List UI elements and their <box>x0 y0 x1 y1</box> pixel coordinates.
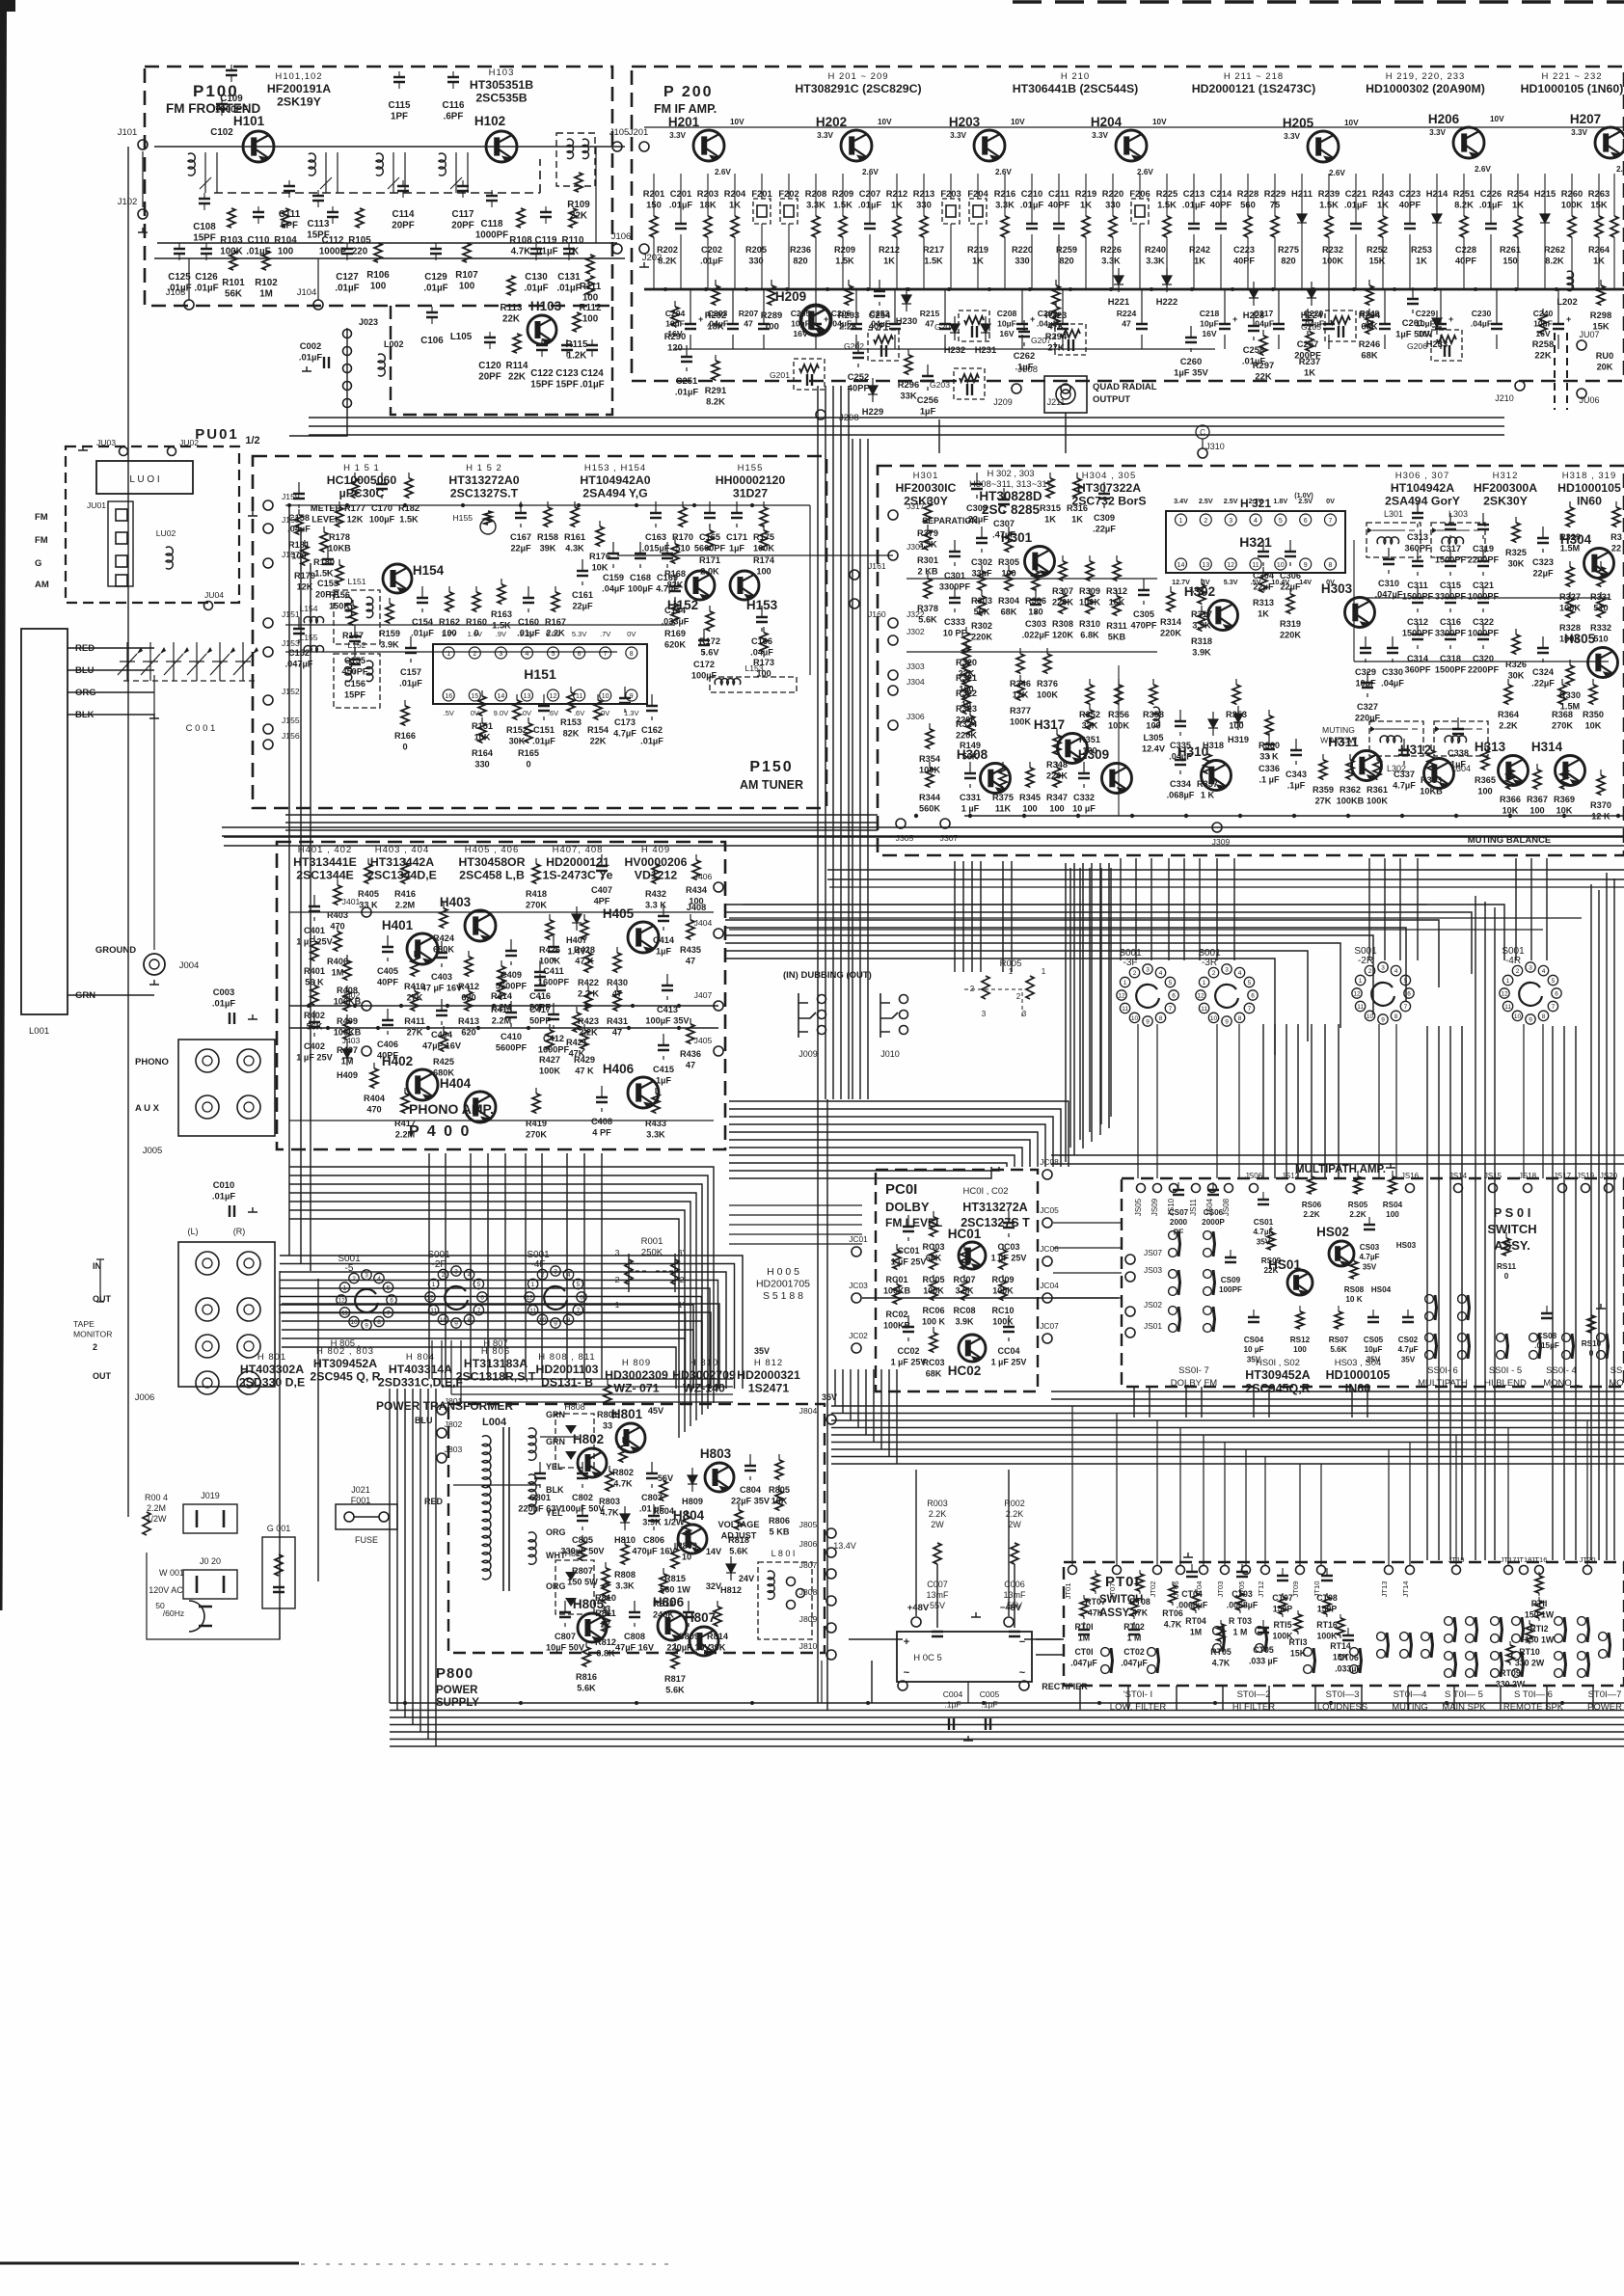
svg-text:15PF: 15PF <box>344 690 365 700</box>
svg-text:C343: C343 <box>1286 770 1307 779</box>
svg-text:2200PF: 2200PF <box>1468 665 1500 675</box>
svg-text:R203: R203 <box>697 188 718 199</box>
svg-text:H232: H232 <box>944 344 965 355</box>
capacitor CS05 <box>1367 1317 1379 1322</box>
svg-text:47: 47 <box>744 319 753 329</box>
svg-text:R425: R425 <box>433 1057 454 1067</box>
svg-text:.033 µF: .033 µF <box>1249 1657 1279 1666</box>
top edge dotted line right half <box>1013 0 1624 4</box>
jack JS18 <box>1524 1184 1532 1193</box>
svg-text:J305: J305 <box>896 833 914 843</box>
capacitor symbol C240 <box>1557 289 1559 324</box>
svg-text:PU01: PU01 <box>195 426 239 443</box>
svg-text:15PF: 15PF <box>555 380 578 391</box>
block P150 AM tuner <box>253 456 826 808</box>
svg-text:200PF: 200PF <box>1294 350 1321 361</box>
svg-text:C257: C257 <box>1297 338 1318 349</box>
svg-text:J304: J304 <box>907 677 925 687</box>
svg-text:2: 2 <box>1368 968 1372 975</box>
crystal filter G201 <box>794 359 825 390</box>
capacitor CS02 <box>1402 1317 1414 1322</box>
jack J309 <box>1212 823 1222 832</box>
jack JS15 <box>1489 1184 1498 1193</box>
svg-text:HC0I , C02: HC0I , C02 <box>963 1186 1009 1197</box>
svg-text:1 K: 1 K <box>1201 791 1215 800</box>
tuned circuit L104 <box>439 153 446 176</box>
svg-text:R361: R361 <box>1367 785 1388 795</box>
svg-text:2.6V: 2.6V <box>995 168 1012 176</box>
wire J104 up <box>317 258 319 300</box>
transistor H204 <box>1116 130 1147 162</box>
svg-text:1K: 1K <box>1080 200 1092 210</box>
svg-text:F201: F201 <box>751 188 771 199</box>
jack J807 <box>826 1569 836 1579</box>
svg-text:R294: R294 <box>1045 331 1068 341</box>
svg-text:1: 1 <box>1359 978 1363 985</box>
tape jack pair <box>196 1298 219 1321</box>
svg-text:R416: R416 <box>394 889 416 899</box>
svg-text:HT30828D: HT30828D <box>979 489 1042 503</box>
svg-text:8: 8 <box>1238 1015 1242 1022</box>
svg-text:HD1000105: HD1000105 <box>1557 481 1621 495</box>
svg-text:6: 6 <box>1555 991 1558 998</box>
svg-text:15: 15 <box>471 693 478 700</box>
svg-text:1.5M: 1.5M <box>1560 544 1581 554</box>
svg-text:+48V: +48V <box>907 1603 930 1613</box>
svg-text:.01µF: .01µF <box>1344 200 1367 210</box>
svg-text:9: 9 <box>1225 1019 1229 1026</box>
L801 switch contacts <box>787 1578 796 1586</box>
svg-text:C152: C152 <box>288 648 310 658</box>
svg-text:R816: R816 <box>576 1672 597 1682</box>
svg-text:30K: 30K <box>1508 671 1525 681</box>
svg-text:R302: R302 <box>971 621 992 631</box>
svg-text:2: 2 <box>1516 968 1520 975</box>
svg-text:R215: R215 <box>920 309 940 318</box>
svg-text:620K: 620K <box>664 640 686 650</box>
jack J201 <box>639 142 649 151</box>
svg-text:HC01: HC01 <box>948 1227 982 1241</box>
svg-text:R315: R315 <box>1040 503 1061 513</box>
svg-text:R377: R377 <box>1010 706 1031 716</box>
jack J202 <box>639 244 649 254</box>
wire bundle under P150 <box>222 827 1624 836</box>
svg-text:R304: R304 <box>998 596 1020 606</box>
capacitor CS08 <box>1541 1313 1553 1318</box>
svg-text:HS0I , S02: HS0I , S02 <box>1256 1358 1300 1368</box>
block PC01 dolby <box>876 1170 1038 1391</box>
svg-text:C162: C162 <box>641 725 663 735</box>
tuned circuit L102 <box>309 153 315 176</box>
svg-text:C221: C221 <box>1345 188 1367 199</box>
svg-text:C258: C258 <box>1243 344 1264 355</box>
circled C node <box>1196 425 1209 439</box>
capacitor C214 <box>1215 224 1227 229</box>
svg-text:2.3V: 2.3V <box>1249 497 1263 505</box>
jack J305 <box>896 819 906 828</box>
svg-text:JS05: JS05 <box>1134 1198 1143 1216</box>
svg-text:8: 8 <box>1159 1015 1163 1022</box>
transformer primary coil <box>482 1436 491 1513</box>
svg-text:R364: R364 <box>1498 710 1520 719</box>
svg-text:1PF: 1PF <box>391 112 408 122</box>
svg-text:C114: C114 <box>392 209 415 220</box>
svg-text:RS04: RS04 <box>1383 1201 1403 1209</box>
svg-text:JC07: JC07 <box>1040 1321 1059 1331</box>
jack JS17 <box>1558 1184 1567 1193</box>
svg-text:G 001: G 001 <box>267 1524 291 1533</box>
svg-text:.01µF: .01µF <box>399 679 422 689</box>
svg-text:330 2W: 330 2W <box>1515 1659 1545 1668</box>
svg-text:J106: J106 <box>611 231 632 242</box>
jack JS01 <box>1125 1328 1135 1337</box>
svg-text:CC02: CC02 <box>897 1346 919 1356</box>
svg-text:6: 6 <box>1251 993 1255 1000</box>
svg-text:360PF: 360PF <box>1404 665 1430 675</box>
svg-text:.01µF: .01µF <box>1242 356 1265 366</box>
transistor H154 <box>383 564 412 594</box>
svg-text:1K: 1K <box>1194 257 1205 266</box>
svg-text:J804: J804 <box>799 1406 818 1416</box>
svg-text:FM: FM <box>35 512 48 523</box>
choke L801 <box>758 1562 812 1639</box>
svg-text:H206: H206 <box>1428 112 1460 126</box>
svg-text:R102: R102 <box>255 278 278 288</box>
svg-text:C002: C002 <box>300 340 321 351</box>
svg-text:H812: H812 <box>720 1585 742 1595</box>
svg-text:100: 100 <box>764 321 779 332</box>
transistor H153 <box>730 571 759 601</box>
svg-text:R289: R289 <box>761 310 782 320</box>
svg-text:100: 100 <box>370 282 387 292</box>
svg-text:JU02: JU02 <box>179 438 199 447</box>
jack J161 <box>850 570 859 580</box>
svg-text:C156: C156 <box>344 679 365 689</box>
svg-text:HS02: HS02 <box>1316 1225 1349 1239</box>
svg-text:R114: R114 <box>506 361 528 371</box>
svg-text:8: 8 <box>1329 562 1333 569</box>
svg-text:C415: C415 <box>653 1065 674 1074</box>
svg-text:4.7K: 4.7K <box>613 1479 633 1489</box>
svg-text:H 1 5 1: H 1 5 1 <box>343 463 380 473</box>
svg-text:0V: 0V <box>1326 497 1335 505</box>
svg-text:HT30458OR: HT30458OR <box>458 855 525 869</box>
svg-text:10KB: 10KB <box>1420 787 1443 797</box>
svg-text:R362: R362 <box>1340 785 1361 795</box>
svg-text:R332: R332 <box>1590 623 1611 633</box>
wire J008 drop <box>1065 413 1067 453</box>
svg-text:R174: R174 <box>753 555 775 565</box>
svg-text:100K: 100K <box>1037 690 1058 700</box>
svg-text:5.6K: 5.6K <box>665 1686 685 1695</box>
svg-text:C116: C116 <box>443 100 465 111</box>
svg-text:22K: 22K <box>1534 350 1551 361</box>
svg-text:150: 150 <box>1502 257 1517 266</box>
svg-text:.01µF: .01µF <box>1182 200 1205 210</box>
svg-text:H 302 , 303: H 302 , 303 <box>987 469 1034 479</box>
jack JC05 <box>1042 1218 1052 1228</box>
svg-text:JU01: JU01 <box>87 500 106 510</box>
svg-text:RU0: RU0 <box>1596 351 1613 361</box>
svg-text:R00 4: R00 4 <box>145 1493 168 1502</box>
svg-text:.6PF: .6PF <box>444 112 464 122</box>
svg-text:120K: 120K <box>1052 631 1073 640</box>
svg-text:10V: 10V <box>1490 115 1504 123</box>
svg-text:3.3K: 3.3K <box>615 1581 635 1591</box>
svg-text:.01µF: .01µF <box>675 387 698 397</box>
transistor H209 <box>800 305 831 337</box>
svg-text:2: 2 <box>442 1272 446 1279</box>
svg-text:R428: R428 <box>574 945 595 955</box>
svg-text:HT309452A: HT309452A <box>1245 1368 1310 1382</box>
svg-text:H215: H215 <box>1534 188 1556 199</box>
svg-text:10K: 10K <box>592 563 609 573</box>
svg-text:R246: R246 <box>1359 338 1380 349</box>
svg-text:H405: H405 <box>603 906 635 921</box>
svg-text:1000PF: 1000PF <box>475 230 508 241</box>
resistor R263 <box>1595 216 1603 237</box>
jack J304 <box>888 686 898 695</box>
svg-text:2.6V: 2.6V <box>1475 165 1491 174</box>
svg-text:C109: C109 <box>220 94 243 104</box>
svg-text:4 PF: 4 PF <box>592 1128 611 1138</box>
svg-text:CS09: CS09 <box>1221 1276 1241 1284</box>
svg-text:.01µF: .01µF <box>335 284 359 294</box>
svg-text:12: 12 <box>426 1295 434 1302</box>
svg-text:H403: H403 <box>440 895 472 909</box>
svg-text:AM TUNER: AM TUNER <box>740 778 803 792</box>
svg-text:2.5V: 2.5V <box>1199 497 1213 505</box>
svg-text:JT02: JT02 <box>1149 1581 1157 1598</box>
svg-text:0: 0 <box>526 760 530 770</box>
svg-text:OUTPUT: OUTPUT <box>1093 394 1130 405</box>
svg-text:.22µF: .22µF <box>1093 525 1116 534</box>
page left edge black bar <box>0 0 7 1610</box>
svg-text:4: 4 <box>1254 518 1258 525</box>
svg-text:J004: J004 <box>179 960 200 971</box>
svg-text:100: 100 <box>278 247 294 257</box>
svg-text:C324: C324 <box>1532 667 1555 677</box>
jack JT04 <box>1200 1566 1208 1575</box>
wire bottom bundle connects <box>821 1661 823 1703</box>
svg-text:J160: J160 <box>868 609 886 619</box>
svg-text:9.0V: 9.0V <box>494 709 508 717</box>
wire right of dolby <box>1053 1222 1122 1224</box>
svg-text:C308: C308 <box>966 503 988 513</box>
svg-text:H312: H312 <box>1493 471 1519 481</box>
svg-text:J802: J802 <box>445 1419 463 1429</box>
svg-text:3.9K: 3.9K <box>1192 621 1211 631</box>
svg-text:JS10: JS10 <box>1167 1198 1176 1216</box>
capacitor CT0I <box>1078 1630 1090 1634</box>
resistor RT09 <box>1506 1645 1514 1662</box>
svg-text:J403: J403 <box>342 1036 361 1045</box>
svg-text:P800: P800 <box>436 1665 474 1682</box>
svg-text:100K: 100K <box>1559 635 1581 644</box>
svg-text:JC06: JC06 <box>1040 1244 1059 1254</box>
svg-text:C262: C262 <box>1014 350 1035 361</box>
svg-text:12: 12 <box>526 1295 533 1302</box>
resistor RS08 <box>1350 1261 1358 1279</box>
jack J102 <box>138 209 148 219</box>
svg-text:12: 12 <box>1501 991 1508 998</box>
svg-text:H101,102: H101,102 <box>275 71 322 82</box>
svg-text:RC06: RC06 <box>922 1306 944 1315</box>
capacitor CT02 <box>1128 1630 1140 1634</box>
svg-text:C102: C102 <box>210 127 233 138</box>
crystal filter G204 <box>959 311 989 341</box>
svg-text:H 211 ~ 218: H 211 ~ 218 <box>1224 71 1284 82</box>
svg-text:15K: 15K <box>1590 200 1607 210</box>
svg-text:MUTING: MUTING <box>1322 725 1355 735</box>
jack J159 <box>263 500 273 510</box>
svg-text:JS09: JS09 <box>1150 1198 1159 1216</box>
svg-text:C161: C161 <box>572 590 593 600</box>
tape jack pair <box>196 1252 219 1275</box>
svg-text:R242: R242 <box>1189 245 1210 255</box>
crystal filter G207 <box>1055 324 1086 355</box>
svg-text:270K: 270K <box>526 1130 547 1140</box>
jack JC04 <box>1042 1293 1052 1303</box>
svg-text:C806: C806 <box>643 1535 664 1545</box>
svg-text:R258: R258 <box>1532 338 1554 349</box>
svg-text:.01µF: .01µF <box>299 352 322 363</box>
svg-text:C118: C118 <box>481 219 503 230</box>
svg-text:MULTIPATH AMP.: MULTIPATH AMP. <box>1295 1164 1386 1175</box>
svg-text:RT04: RT04 <box>1185 1616 1206 1626</box>
svg-text:6: 6 <box>480 1295 484 1302</box>
wire mesh verticals right of dubbing <box>1065 863 1067 1162</box>
jack J209 <box>1012 384 1021 393</box>
svg-text:R308: R308 <box>1052 619 1073 629</box>
svg-text:.047µF: .047µF <box>1121 1659 1148 1668</box>
wire rect area connects <box>936 1564 938 1628</box>
svg-text:BLU: BLU <box>415 1416 433 1425</box>
wire right h1 <box>829 886 1624 888</box>
svg-text:18K: 18K <box>707 321 723 332</box>
svg-text:JS11: JS11 <box>1189 1199 1198 1216</box>
svg-text:1.2K: 1.2K <box>567 351 587 362</box>
transistor H805 <box>578 1613 607 1643</box>
svg-text:R435: R435 <box>680 945 701 955</box>
P100 component symbols <box>199 199 210 203</box>
svg-text:L001: L001 <box>29 1026 49 1037</box>
svg-text:R106: R106 <box>366 270 390 281</box>
svg-text:A U X: A U X <box>135 1103 160 1114</box>
svg-text:C254: C254 <box>869 310 891 320</box>
capacitor symbol C205 <box>815 289 817 324</box>
svg-text:220K: 220K <box>1046 771 1068 781</box>
svg-text:.7V: .7V <box>600 630 610 638</box>
svg-text:HS03: HS03 <box>1396 1241 1417 1250</box>
resistor R209 <box>839 216 847 237</box>
svg-text:7: 7 <box>1169 1006 1173 1013</box>
svg-text:9: 9 <box>365 1323 368 1330</box>
resistor R251 <box>1460 216 1468 237</box>
svg-text:3.3V: 3.3V <box>1284 132 1300 141</box>
svg-text:40PF: 40PF <box>1048 200 1070 210</box>
svg-text:.01µF: .01µF <box>411 629 434 638</box>
wire under rotaries <box>1051 1155 1624 1164</box>
svg-text:J801: J801 <box>445 1396 463 1406</box>
svg-text:100µF: 100µF <box>628 584 654 594</box>
svg-text:220: 220 <box>352 247 368 257</box>
jack J151 <box>263 618 273 628</box>
svg-text:JS14: JS14 <box>1449 1172 1468 1180</box>
svg-text:7: 7 <box>1404 1004 1408 1011</box>
svg-text:HT308291C (2SC829C): HT308291C (2SC829C) <box>795 82 921 95</box>
svg-text:100µF 35V: 100µF 35V <box>645 1016 690 1026</box>
svg-text:1 µF 25V: 1 µF 25V <box>991 1358 1027 1367</box>
svg-text:R204: R204 <box>724 188 746 199</box>
svg-text:R3: R3 <box>1610 532 1622 542</box>
svg-text:3.4V: 3.4V <box>1174 497 1188 505</box>
svg-text:3: 3 <box>365 1273 368 1280</box>
svg-text:7: 7 <box>1248 1006 1252 1013</box>
IC H321 <box>1166 511 1345 573</box>
svg-text:10V: 10V <box>878 118 892 126</box>
svg-text:PHONO: PHONO <box>135 1057 169 1067</box>
svg-text:2SC 8285: 2SC 8285 <box>982 502 1041 517</box>
svg-text:10V: 10V <box>730 118 744 126</box>
svg-text:R220: R220 <box>1012 245 1033 255</box>
svg-text:R207: R207 <box>739 309 759 318</box>
svg-text:C802: C802 <box>572 1493 593 1502</box>
svg-text:4.7µF: 4.7µF <box>1393 781 1416 791</box>
svg-text:3: 3 <box>1381 965 1385 972</box>
svg-text:620: 620 <box>461 1028 475 1038</box>
svg-text:QUAD RADIAL: QUAD RADIAL <box>1093 382 1157 392</box>
svg-text:C122: C122 <box>530 368 554 379</box>
svg-text:JC08: JC08 <box>1040 1157 1059 1167</box>
svg-text:5: 5 <box>477 1282 481 1288</box>
svg-text:RTI3: RTI3 <box>1288 1637 1307 1647</box>
svg-text:LU02: LU02 <box>156 528 176 538</box>
svg-text:C804: C804 <box>740 1485 762 1495</box>
svg-text:15PF: 15PF <box>307 230 329 241</box>
svg-text:H205: H205 <box>1283 116 1314 130</box>
svg-text:JC02: JC02 <box>849 1331 868 1340</box>
svg-text:CS02: CS02 <box>1398 1336 1419 1344</box>
ground multipath <box>1386 1163 1395 1168</box>
svg-text:L153: L153 <box>744 663 763 673</box>
svg-text:40PF: 40PF <box>377 978 398 987</box>
resistor RT16 <box>1323 1597 1331 1614</box>
svg-text:100: 100 <box>1293 1345 1307 1354</box>
svg-text:C327: C327 <box>1357 702 1378 712</box>
svg-text:HF200191A: HF200191A <box>267 82 331 95</box>
svg-text:H155: H155 <box>738 463 764 473</box>
capacitor CT05 <box>1258 1628 1269 1633</box>
svg-text:1K: 1K <box>972 257 984 266</box>
svg-text:240K: 240K <box>653 1610 674 1620</box>
svg-text:R369: R369 <box>1554 795 1575 804</box>
wire mesh tape to middle staircase <box>282 1304 719 1389</box>
resistor R203 <box>704 216 712 237</box>
svg-text:G201: G201 <box>770 370 790 380</box>
svg-text:(L): (L) <box>188 1227 199 1236</box>
svg-text:JT12: JT12 <box>1257 1581 1265 1598</box>
svg-text:L U O I: L U O I <box>129 474 159 485</box>
svg-text:J021: J021 <box>351 1485 370 1495</box>
svg-text:R427: R427 <box>539 1055 560 1065</box>
svg-text:45V: 45V <box>648 1406 664 1416</box>
svg-text:3.3V: 3.3V <box>1571 128 1587 137</box>
resistor RT02 <box>1130 1599 1138 1616</box>
svg-text:C171: C171 <box>726 532 747 542</box>
lamp H155 <box>480 519 496 534</box>
resistor RS10 <box>1587 1315 1595 1333</box>
